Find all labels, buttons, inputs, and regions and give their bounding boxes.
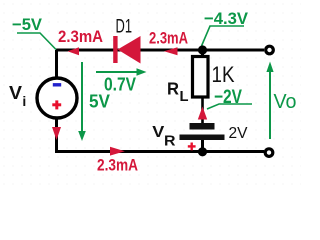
label RL	[167, 79, 189, 105]
wire top horizontal	[56, 49, 264, 52]
voltage label 0.7V with arrow	[96, 68, 147, 94]
label Vi	[9, 83, 26, 109]
wire left vertical	[55, 50, 58, 151]
svg-text:L: L	[180, 89, 189, 105]
current arrow up (resistor to battery)	[198, 107, 207, 120]
terminal top right	[266, 46, 274, 54]
svg-text:2.3mA: 2.3mA	[97, 156, 138, 175]
svg-text:V: V	[152, 124, 164, 141]
svg-text:R: R	[167, 79, 179, 99]
resistor RL	[193, 50, 209, 123]
svg-text:−5V: −5V	[12, 15, 43, 34]
svg-text:Vo: Vo	[274, 91, 297, 113]
svg-text:2V: 2V	[229, 125, 249, 142]
voltage arrow 5V (down)	[78, 62, 110, 141]
svg-text:V: V	[9, 83, 22, 103]
wire bottom horizontal	[55, 150, 264, 153]
current arrow left on top wire (before diode)	[68, 47, 80, 55]
junction node bottom	[198, 147, 207, 156]
svg-text:−4.3V: −4.3V	[204, 9, 249, 28]
voltage source Vi	[37, 78, 77, 118]
diode D1	[113, 36, 140, 64]
svg-text:D1: D1	[116, 16, 133, 38]
svg-text:1K: 1K	[212, 62, 235, 87]
current arrow left on top wire (after diode)	[164, 47, 178, 55]
svg-text:i: i	[22, 93, 26, 109]
svg-text:R: R	[164, 133, 176, 150]
node label -2V	[207, 87, 252, 109]
current arrow down (source to bottom rail)	[52, 127, 61, 140]
node label -5V	[12, 15, 56, 50]
svg-text:2.3mA: 2.3mA	[58, 28, 103, 46]
svg-text:5V: 5V	[89, 92, 110, 112]
terminal bottom right	[265, 149, 273, 157]
battery plus sign	[188, 143, 196, 151]
current arrow right on bottom wire	[110, 147, 125, 156]
label VR	[152, 124, 175, 150]
junction node top	[198, 45, 207, 54]
node label -4.3V	[202, 9, 249, 46]
svg-text:2.3mA: 2.3mA	[149, 30, 188, 48]
output voltage arrow Vo	[266, 62, 296, 140]
battery VR	[180, 123, 225, 152]
